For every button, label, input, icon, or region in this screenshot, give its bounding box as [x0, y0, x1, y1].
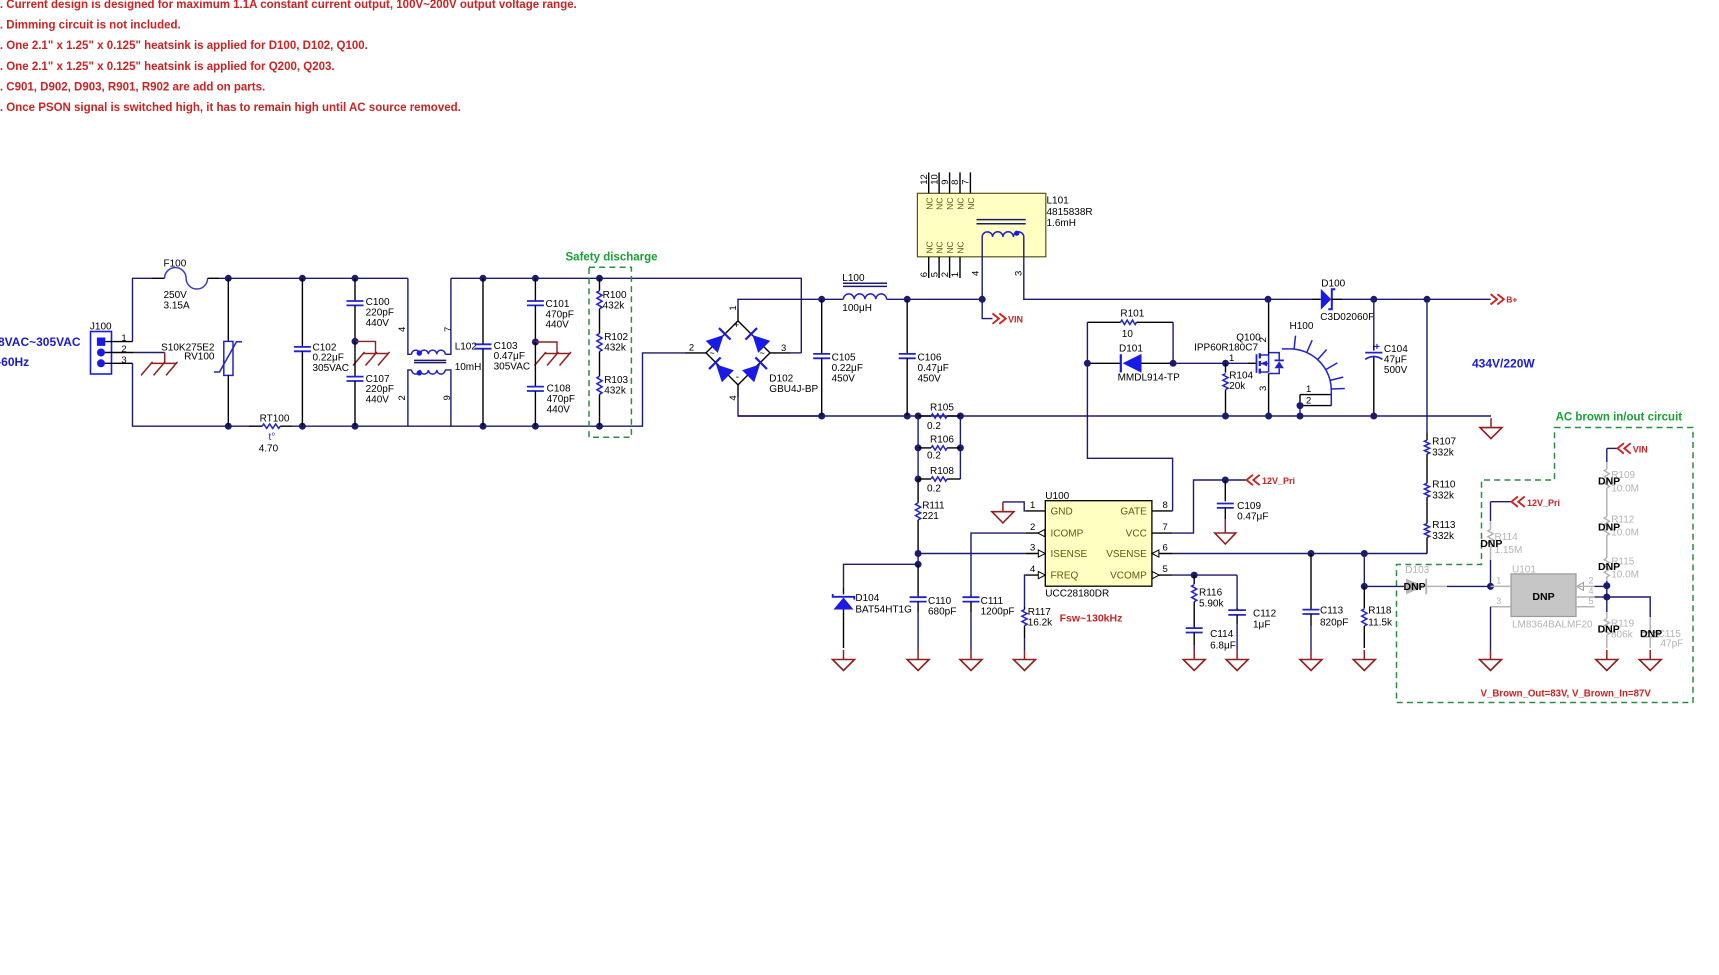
- svg-text:R118: R118: [1368, 605, 1392, 616]
- svg-text:12V_Pri: 12V_Pri: [1527, 498, 1560, 508]
- svg-text:ICOMP: ICOMP: [1051, 529, 1084, 540]
- svg-text:4: 4: [971, 271, 982, 276]
- svg-text:12: 12: [919, 174, 930, 185]
- svg-text:10: 10: [929, 174, 940, 185]
- svg-text:Fsw~130kHz: Fsw~130kHz: [1060, 613, 1123, 625]
- svg-text:C109: C109: [1237, 501, 1261, 512]
- svg-text:+: +: [1374, 341, 1380, 353]
- svg-text:2: 2: [397, 395, 408, 400]
- svg-text:820pF: 820pF: [1320, 618, 1348, 629]
- svg-text:2: 2: [940, 272, 951, 277]
- svg-text:C106: C106: [918, 352, 942, 363]
- svg-text:3: 3: [121, 355, 126, 366]
- svg-text:DNP: DNP: [1598, 561, 1620, 573]
- svg-text:432k: 432k: [604, 342, 627, 353]
- svg-text:1: 1: [728, 305, 739, 310]
- svg-text:11.5k: 11.5k: [1368, 618, 1393, 629]
- svg-text:3: 3: [781, 343, 786, 354]
- svg-text:2: 2: [121, 344, 126, 355]
- svg-text:D104: D104: [855, 593, 879, 604]
- svg-text:t°: t°: [269, 432, 276, 443]
- svg-text:0.2: 0.2: [927, 421, 941, 432]
- svg-text:MMDL914-TP: MMDL914-TP: [1118, 373, 1181, 384]
- svg-text:100μH: 100μH: [842, 303, 872, 314]
- svg-text:IPP60R180C7: IPP60R180C7: [1194, 343, 1258, 354]
- svg-text:1.6mH: 1.6mH: [1047, 218, 1076, 229]
- svg-text:+: +: [734, 320, 740, 331]
- svg-text:L100: L100: [842, 273, 865, 284]
- svg-text:DNP: DNP: [1532, 591, 1554, 603]
- svg-text:305VAC: 305VAC: [494, 361, 531, 372]
- svg-text:1: 1: [1030, 500, 1035, 511]
- svg-text:NC: NC: [935, 241, 945, 253]
- svg-text:3: 3: [1030, 543, 1035, 554]
- svg-text:GBU4J-BP: GBU4J-BP: [769, 384, 818, 395]
- svg-text:C113: C113: [1320, 605, 1344, 616]
- svg-text:V_Brown_Out=83V, V_Brown_In=87: V_Brown_Out=83V, V_Brown_In=87V: [1481, 689, 1652, 700]
- svg-text:L101: L101: [1047, 196, 1070, 207]
- svg-text:F100: F100: [164, 259, 187, 270]
- svg-text:R108: R108: [930, 466, 954, 477]
- svg-text:R116: R116: [1199, 587, 1223, 598]
- svg-text:H100: H100: [1290, 321, 1314, 332]
- svg-text:DNP: DNP: [1404, 581, 1426, 593]
- svg-text:432k: 432k: [603, 301, 626, 312]
- svg-text:2. Dimming circuit is not incl: 2. Dimming circuit is not included.: [0, 20, 181, 32]
- svg-text:7-60Hz: 7-60Hz: [0, 355, 29, 369]
- svg-text:4: 4: [728, 395, 739, 400]
- svg-text:RT100: RT100: [260, 414, 290, 425]
- svg-text:1. Current design is designed: 1. Current design is designed for maximu…: [0, 0, 577, 11]
- svg-text:6: 6: [919, 272, 930, 277]
- svg-text:VIN: VIN: [1633, 445, 1648, 455]
- svg-text:~: ~: [760, 348, 765, 358]
- svg-text:20k: 20k: [1229, 381, 1246, 392]
- svg-text:5.90k: 5.90k: [1199, 598, 1224, 609]
- svg-text:GND: GND: [1051, 507, 1073, 518]
- svg-text:BAT54HT1G: BAT54HT1G: [855, 604, 912, 615]
- svg-text:NC: NC: [966, 198, 976, 210]
- svg-text:3: 3: [1496, 596, 1501, 606]
- svg-text:0.47μF: 0.47μF: [918, 363, 949, 374]
- svg-text:6: 6: [1163, 543, 1168, 554]
- svg-text:-: -: [736, 372, 739, 383]
- svg-text:440V: 440V: [366, 318, 390, 329]
- svg-text:U101: U101: [1512, 564, 1536, 575]
- svg-text:440V: 440V: [547, 404, 571, 415]
- svg-text:5: 5: [1589, 596, 1594, 606]
- svg-text:D100: D100: [1321, 279, 1345, 290]
- svg-text:1: 1: [1229, 353, 1234, 364]
- svg-text:4: 4: [397, 327, 408, 332]
- svg-text:NC: NC: [956, 198, 966, 210]
- svg-text:16.2k: 16.2k: [1028, 617, 1053, 628]
- svg-text:VIN: VIN: [1008, 315, 1023, 325]
- svg-text:6.8μF: 6.8μF: [1210, 640, 1236, 651]
- svg-text:332k: 332k: [1432, 447, 1455, 458]
- svg-text:J100: J100: [90, 321, 112, 332]
- svg-text:C112: C112: [1253, 608, 1277, 619]
- svg-text:450V: 450V: [832, 373, 856, 384]
- svg-text:2: 2: [1589, 575, 1594, 585]
- svg-text:10mH: 10mH: [455, 362, 482, 373]
- svg-text:DNP: DNP: [1598, 522, 1620, 534]
- svg-text:Safety discharge: Safety discharge: [566, 252, 658, 264]
- svg-text:UCC28180DR: UCC28180DR: [1045, 588, 1109, 599]
- svg-text:4.70: 4.70: [259, 444, 279, 455]
- svg-text:1: 1: [950, 272, 961, 277]
- svg-text:12V_Pri: 12V_Pri: [1262, 476, 1295, 486]
- svg-text:RV100: RV100: [184, 352, 215, 363]
- svg-text:5: 5: [929, 272, 940, 277]
- svg-text:500V: 500V: [1384, 365, 1408, 376]
- svg-text:1: 1: [1496, 575, 1501, 585]
- svg-text:7: 7: [1163, 522, 1168, 533]
- svg-text:8: 8: [1163, 500, 1168, 511]
- svg-text:1200pF: 1200pF: [981, 606, 1015, 617]
- svg-text:DNP: DNP: [1598, 475, 1620, 487]
- svg-text:3: 3: [1258, 386, 1269, 391]
- svg-text:10: 10: [1122, 329, 1134, 340]
- svg-text:9: 9: [442, 395, 453, 400]
- svg-text:221: 221: [922, 511, 939, 522]
- svg-text:R113: R113: [1432, 520, 1456, 531]
- svg-text:R106: R106: [930, 434, 954, 445]
- svg-text:LM8364BALMF20: LM8364BALMF20: [1512, 619, 1593, 630]
- svg-text:3: 3: [1014, 271, 1025, 276]
- svg-text:440V: 440V: [366, 395, 390, 406]
- svg-text:6. Once PSON signal is switche: 6. Once PSON signal is switched high, it…: [0, 102, 461, 114]
- svg-text:8: 8: [950, 180, 961, 185]
- svg-text:5: 5: [1163, 564, 1168, 575]
- svg-text:0.47μF: 0.47μF: [1237, 512, 1268, 523]
- svg-text:2: 2: [1030, 522, 1035, 533]
- svg-text:7: 7: [961, 180, 972, 185]
- svg-text:~: ~: [710, 348, 715, 358]
- svg-text:4. One 2.1" x 1.25" x 0.125" h: 4. One 2.1" x 1.25" x 0.125" heatsink is…: [0, 61, 335, 73]
- svg-text:DNP: DNP: [1598, 623, 1620, 635]
- svg-text:305VAC: 305VAC: [313, 363, 350, 374]
- svg-text:DNP: DNP: [1480, 538, 1502, 550]
- svg-text:9: 9: [940, 180, 951, 185]
- svg-text:D101: D101: [1119, 343, 1143, 354]
- svg-text:B+: B+: [1506, 295, 1517, 305]
- svg-text:8VAC~305VAC: 8VAC~305VAC: [0, 335, 81, 349]
- svg-text:VSENSE: VSENSE: [1106, 549, 1147, 560]
- svg-text:D103: D103: [1405, 565, 1429, 576]
- svg-text:432k: 432k: [604, 385, 627, 396]
- svg-text:NC: NC: [935, 198, 945, 210]
- svg-text:C3D02060F: C3D02060F: [1320, 312, 1374, 323]
- svg-text:4: 4: [1030, 564, 1035, 575]
- svg-text:NC: NC: [945, 198, 955, 210]
- svg-text:NC: NC: [924, 241, 934, 253]
- svg-text:R111: R111: [922, 501, 945, 512]
- svg-text:C105: C105: [832, 352, 856, 363]
- svg-text:3. One 2.1" x 1.25" x 0.125" h: 3. One 2.1" x 1.25" x 0.125" heatsink is…: [0, 40, 368, 52]
- svg-text:GATE: GATE: [1120, 507, 1147, 518]
- svg-text:VCOMP: VCOMP: [1110, 571, 1147, 582]
- svg-text:450V: 450V: [918, 373, 942, 384]
- svg-text:434V/220W: 434V/220W: [1472, 356, 1535, 370]
- svg-text:2: 2: [1306, 395, 1311, 406]
- svg-text:R101: R101: [1120, 309, 1144, 320]
- svg-text:AC brown in/out circuit: AC brown in/out circuit: [1556, 412, 1683, 424]
- svg-text:332k: 332k: [1432, 490, 1455, 501]
- svg-text:0.2: 0.2: [927, 451, 941, 462]
- svg-text:R110: R110: [1432, 479, 1456, 490]
- svg-text:C114: C114: [1210, 629, 1234, 640]
- svg-text:ISENSE: ISENSE: [1051, 549, 1088, 560]
- svg-text:VCC: VCC: [1126, 529, 1147, 540]
- svg-text:4: 4: [1589, 586, 1594, 596]
- svg-text:2: 2: [689, 342, 694, 353]
- svg-text:440V: 440V: [546, 320, 570, 331]
- svg-text:1μF: 1μF: [1253, 619, 1270, 630]
- svg-text:FREQ: FREQ: [1051, 571, 1079, 582]
- svg-text:1: 1: [121, 333, 126, 344]
- svg-text:1: 1: [1306, 384, 1311, 395]
- svg-text:DNP: DNP: [1640, 628, 1662, 640]
- svg-text:5. C901, D902, D903, R901, R90: 5. C901, D902, D903, R901, R902 are add …: [0, 81, 265, 93]
- svg-text:L102: L102: [455, 341, 478, 352]
- svg-text:680pF: 680pF: [928, 606, 956, 617]
- svg-text:332k: 332k: [1432, 531, 1455, 542]
- svg-text:NC: NC: [924, 198, 934, 210]
- svg-text:0.22μF: 0.22μF: [832, 363, 863, 374]
- svg-text:U100: U100: [1045, 491, 1069, 502]
- svg-text:NC: NC: [945, 241, 955, 253]
- svg-text:7: 7: [443, 327, 454, 332]
- svg-text:R105: R105: [930, 402, 954, 413]
- svg-text:NC: NC: [956, 241, 966, 253]
- svg-text:47pF: 47pF: [1661, 639, 1684, 650]
- svg-text:3.15A: 3.15A: [164, 301, 190, 312]
- svg-text:4815838R: 4815838R: [1047, 207, 1093, 218]
- svg-text:0.2: 0.2: [927, 483, 941, 494]
- svg-text:2: 2: [1258, 337, 1269, 342]
- svg-text:R107: R107: [1432, 436, 1456, 447]
